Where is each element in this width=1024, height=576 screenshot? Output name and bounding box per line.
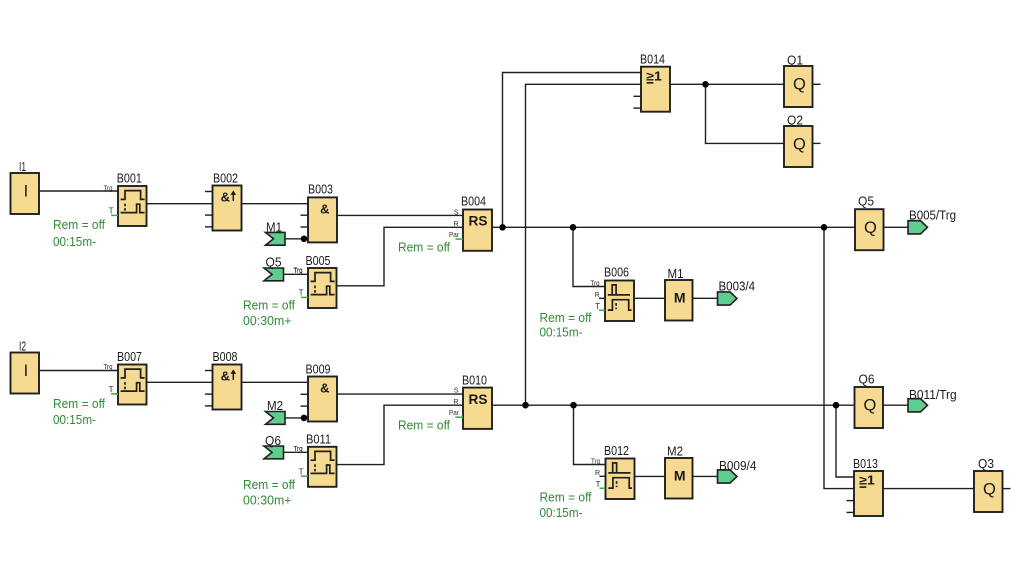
gate B008 AND-edge — [205, 349, 242, 410]
svg-text:00:15m-: 00:15m- — [53, 234, 96, 249]
timer B011 — [294, 432, 337, 487]
input I1 — [11, 159, 40, 214]
svg-text:I: I — [24, 183, 29, 201]
svg-text:00:30m+: 00:30m+ — [243, 493, 292, 508]
wire Q5 flag to B005 Trg — [284, 273, 309, 275]
wire B009 out to B010 S — [337, 393, 463, 395]
output Q3 — [974, 456, 1003, 512]
svg-text:Rem = off: Rem = off — [53, 217, 105, 232]
gate B002 AND-edge — [205, 171, 242, 231]
flag out B003/4 — [718, 279, 756, 306]
wire Q3 out stub — [1003, 488, 1011, 490]
svg-text:M: M — [674, 289, 686, 305]
svg-text:M2: M2 — [667, 444, 683, 459]
wire B006 out to M1 — [634, 297, 665, 299]
wire Q1 out stub — [813, 83, 821, 85]
timer B006 — [591, 265, 635, 322]
wire I1 to B001 Trg — [38, 190, 118, 192]
svg-text:00:15m-: 00:15m- — [540, 505, 583, 520]
svg-text:00:30m+: 00:30m+ — [243, 313, 292, 328]
svg-text:B013: B013 — [853, 456, 878, 471]
wire B004 branch up to B014 in1 — [503, 73, 642, 228]
svg-text:B006: B006 — [604, 265, 629, 280]
svg-text:B004: B004 — [461, 194, 486, 209]
svg-text:M2: M2 — [267, 398, 283, 413]
wire branch down to Q2 — [706, 84, 785, 143]
svg-text:Q: Q — [864, 397, 877, 415]
green param B007 line1 — [53, 396, 105, 411]
svg-text:B008: B008 — [213, 349, 238, 364]
svg-text:Q6: Q6 — [265, 433, 281, 448]
svg-text:B014: B014 — [640, 52, 665, 67]
green param B006 line1 — [540, 310, 592, 325]
node junction M2-B009 — [301, 415, 308, 422]
svg-text:Q5: Q5 — [858, 194, 874, 209]
svg-text:Par: Par — [449, 232, 460, 239]
node junction B012 branch — [570, 402, 577, 409]
wire Q6 flag to B011 Trg — [284, 451, 309, 453]
wire Q5 row branch down to B013 in2 — [824, 227, 854, 488]
svg-text:Rem = off: Rem = off — [243, 298, 295, 313]
flag M2 input — [266, 398, 286, 424]
flag M1 memory — [665, 266, 693, 321]
wire B001 out to B002 in2 — [145, 203, 213, 205]
svg-text:B009: B009 — [306, 362, 331, 377]
wire B004 out main row — [492, 226, 855, 228]
wire B014 out to Q1 — [670, 83, 784, 85]
svg-text:&: & — [320, 202, 329, 217]
label Trg B011 — [294, 446, 303, 453]
svg-text:Q: Q — [793, 136, 806, 154]
svg-text:M1: M1 — [266, 220, 282, 235]
node junction Q5 branch — [821, 224, 828, 231]
output Q1 — [784, 53, 813, 108]
wire I2 to B007 Trg — [38, 370, 118, 372]
svg-text:B001: B001 — [117, 171, 142, 186]
wire branch down to B012 Trg — [574, 405, 606, 464]
green param B011 line2 — [243, 493, 292, 508]
svg-text:I: I — [24, 362, 29, 380]
flag out B009/4 — [718, 458, 757, 483]
green param B010 — [398, 418, 450, 433]
svg-text:Q: Q — [864, 219, 877, 237]
green param B001 line2 — [53, 234, 96, 249]
rs latch B010 — [449, 373, 492, 429]
svg-text:S: S — [454, 388, 459, 395]
svg-text:Q1: Q1 — [787, 53, 803, 68]
output Q2 — [784, 113, 813, 168]
input I2 — [11, 339, 40, 394]
wire M2 out to B009/4 flag — [693, 475, 718, 477]
svg-text:Rem = off: Rem = off — [53, 396, 105, 411]
svg-text:M: M — [674, 467, 686, 483]
wire M1 flag to B003 in4 — [284, 238, 309, 240]
svg-text:B003: B003 — [308, 182, 333, 197]
svg-text:Q2: Q2 — [787, 113, 803, 128]
node junction M1-B003 — [301, 236, 308, 243]
green param B001 line1 — [53, 217, 105, 232]
svg-text:Rem = off: Rem = off — [243, 477, 295, 492]
svg-text:Rem = off: Rem = off — [540, 310, 592, 325]
label Trg B005 — [294, 268, 303, 275]
svg-text:Q5: Q5 — [266, 254, 282, 269]
svg-text:B009/4: B009/4 — [719, 458, 756, 473]
green param B011 line1 — [243, 477, 295, 492]
wire Q5 out to B005/Trg flag — [884, 226, 909, 228]
node junction B004 out — [499, 224, 506, 231]
svg-text:R: R — [453, 399, 458, 406]
svg-text:R: R — [453, 221, 458, 228]
gate B009 AND — [301, 362, 338, 422]
timer B012 — [591, 443, 635, 499]
svg-text:R: R — [594, 292, 599, 299]
svg-text:Trg: Trg — [104, 185, 113, 192]
wire B007 out to B008 in2 — [145, 381, 213, 383]
svg-text:≥1: ≥1 — [646, 69, 662, 83]
svg-text:Trg: Trg — [591, 458, 600, 465]
svg-text:Q: Q — [793, 76, 806, 94]
svg-text:Q3: Q3 — [978, 456, 994, 471]
svg-text:T: T — [109, 207, 114, 216]
gate B013 OR — [847, 456, 884, 516]
node junction B010 out — [522, 402, 529, 409]
green param B012 line1 — [540, 490, 592, 505]
output Q5 — [855, 194, 884, 251]
wire B005 out to B004 R — [337, 227, 463, 285]
node junction B014 out — [702, 81, 709, 88]
green param B004 — [398, 240, 450, 255]
svg-text:B005: B005 — [306, 253, 331, 268]
wire M1 out to B003/4 flag — [693, 297, 718, 299]
svg-text:B007: B007 — [117, 349, 142, 364]
wire B003 out to B004 S — [337, 214, 463, 216]
green param B007 line2 — [53, 412, 96, 427]
rs latch B004 — [449, 194, 492, 251]
green param B005 line1 — [243, 298, 295, 313]
svg-text:Trg: Trg — [104, 364, 113, 371]
node junction Q6 branch — [833, 402, 840, 409]
svg-text:RS: RS — [469, 214, 488, 229]
svg-text:B010: B010 — [462, 373, 487, 388]
svg-text:Trg: Trg — [294, 446, 303, 453]
node junction B006 branch — [570, 224, 577, 231]
svg-text:&: & — [221, 369, 230, 384]
svg-text:B003/4: B003/4 — [719, 279, 756, 294]
wire Q6 out to B011/Trg flag — [884, 404, 909, 406]
gate B003 AND — [301, 182, 338, 243]
svg-text:00:15m-: 00:15m- — [53, 412, 96, 427]
svg-text:R: R — [595, 470, 600, 477]
green param B005 line2 — [243, 313, 292, 328]
output Q6 — [855, 372, 884, 429]
svg-text:Par: Par — [449, 410, 460, 417]
svg-text:B012: B012 — [604, 443, 629, 458]
svg-text:Trg: Trg — [591, 280, 600, 287]
svg-text:Rem = off: Rem = off — [398, 240, 450, 255]
wire B011 out to B010 R — [337, 405, 463, 464]
svg-text:S: S — [454, 209, 459, 216]
green param B006 line2 — [540, 324, 583, 339]
svg-text:I1: I1 — [19, 159, 26, 174]
wire B010 branch up to B014 in2 — [526, 84, 642, 405]
timer B005 — [294, 253, 337, 308]
flag Q6 input — [264, 433, 284, 459]
flag out B011/Trg — [908, 387, 957, 412]
svg-text:&: & — [320, 381, 329, 396]
svg-text:B005/Trg: B005/Trg — [909, 208, 956, 223]
svg-text:Trg: Trg — [294, 268, 303, 275]
flag M1 input — [266, 220, 286, 246]
green param B012 line2 — [540, 505, 583, 520]
svg-text:00:15m-: 00:15m- — [540, 324, 583, 339]
svg-text:B011/Trg: B011/Trg — [909, 387, 957, 402]
wire branch down to B006 Trg — [573, 227, 605, 286]
svg-text:≥1: ≥1 — [859, 474, 875, 488]
svg-text:T: T — [299, 467, 304, 476]
wire B002 out to B003 in1 — [242, 203, 309, 205]
wire M2 flag to B009 in4 — [284, 417, 309, 419]
flag Q5 input — [264, 254, 284, 281]
svg-text:B002: B002 — [213, 171, 238, 186]
timer B007 — [104, 349, 147, 405]
svg-text:RS: RS — [469, 392, 488, 407]
flag M2 memory — [665, 444, 693, 499]
svg-text:Rem = off: Rem = off — [540, 490, 592, 505]
svg-text:&: & — [221, 190, 230, 205]
svg-text:Q: Q — [983, 481, 996, 499]
wire B012 out to M2 — [635, 475, 666, 477]
wire B008 out to B009 in1 — [242, 381, 309, 383]
wire Q6 row branch down to B013 in1 — [836, 405, 854, 477]
svg-text:Rem = off: Rem = off — [398, 418, 450, 433]
svg-text:B011: B011 — [306, 432, 331, 447]
wire B010 out main row — [492, 404, 855, 406]
svg-text:Q6: Q6 — [859, 372, 875, 387]
svg-text:I2: I2 — [19, 339, 26, 354]
wire B013 out to Q3 — [884, 488, 975, 490]
svg-text:M1: M1 — [668, 266, 684, 281]
flag out B005/Trg — [908, 208, 956, 234]
svg-text:T: T — [299, 289, 304, 298]
wire Q2 out stub — [813, 142, 821, 144]
timer B001 — [104, 171, 147, 227]
svg-text:T: T — [109, 385, 114, 394]
gate B014 OR — [634, 52, 671, 112]
